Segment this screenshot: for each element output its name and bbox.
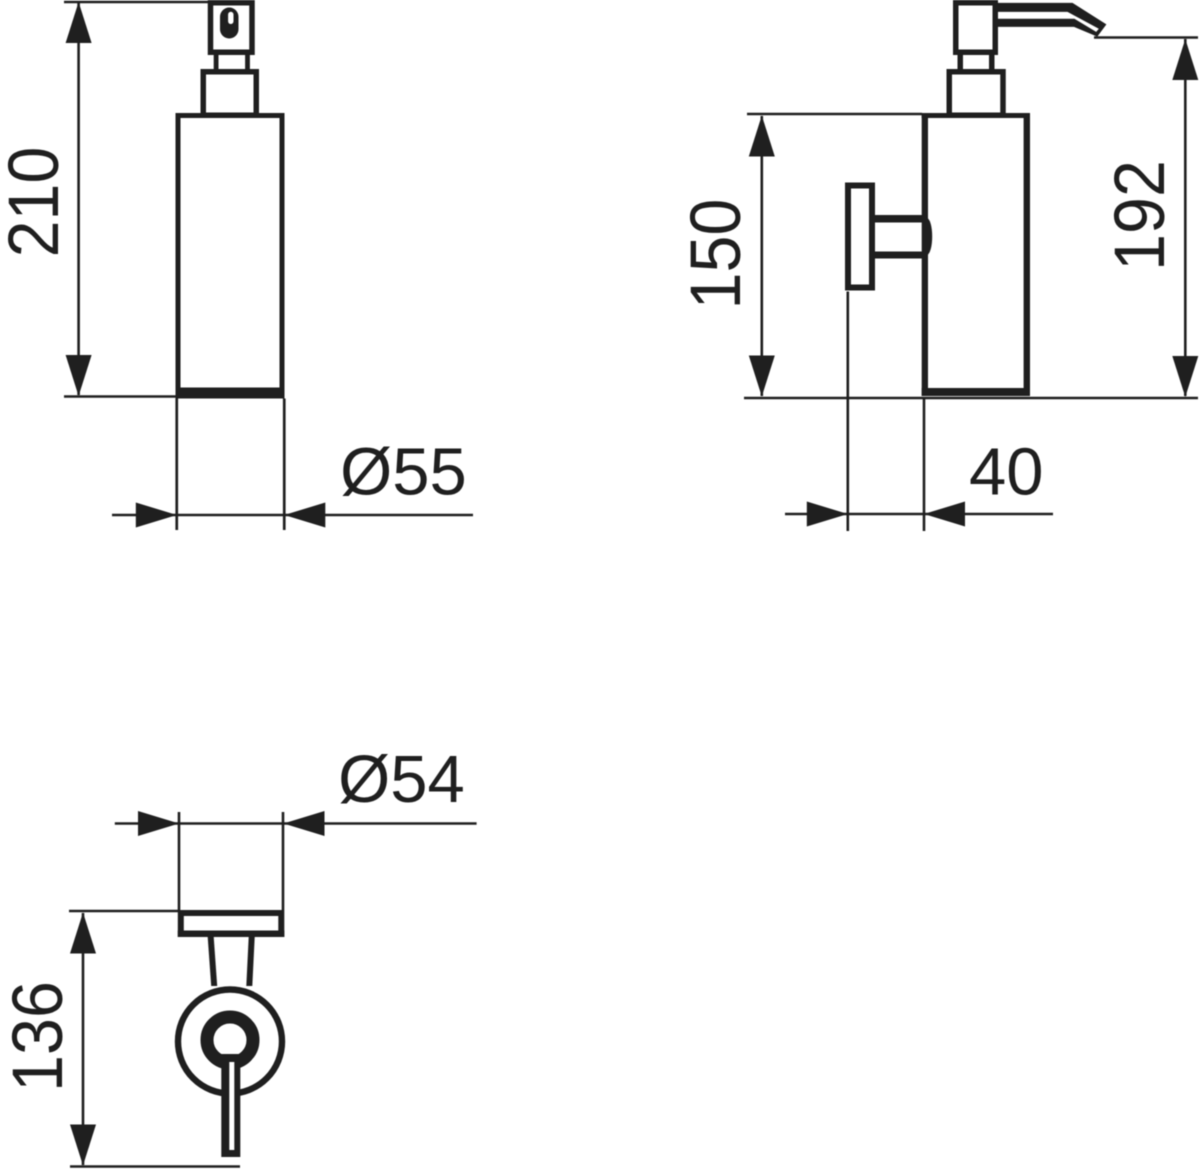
extension line d54 right [282,812,285,910]
pin end arc [925,220,930,254]
mounting pin bottom edge [873,252,926,259]
extension line top (fig1) [64,1,250,4]
pump neck right [245,50,250,72]
pump head front view [211,3,253,53]
arrowhead up (210 top) [66,2,92,43]
dimension line 192 [1184,39,1187,396]
arrowhead down (150) [749,356,775,397]
baseline bottom (fig2) [744,397,1198,400]
arrowhead up (150) [749,116,775,157]
extension line 192 top (at spout tip) [1094,36,1198,39]
dimension line diameter 54 [115,822,477,825]
arrowhead up (192) [1172,39,1198,80]
glass lower part right line [283,399,286,531]
nozzle slot [228,12,233,24]
dimension line 40 [785,513,1053,516]
holder cup rim [181,913,281,934]
body outline side view [922,113,1030,396]
svg-text:150: 150 [676,199,756,310]
extension line 136 top [69,910,178,913]
dimension line 150 [760,116,763,396]
dimension line 210 (vertical) [77,3,80,395]
arrowhead down (136) [70,1125,96,1166]
arrowhead right-pointing (d55 left) [136,503,177,528]
mounting pin top edge [873,215,926,223]
pump head side view [956,3,996,53]
body outline front view [176,113,285,399]
svg-text:136: 136 [0,981,77,1092]
svg-text:40: 40 [969,435,1044,510]
pump collar side view [949,72,1003,116]
pump neck side left [958,50,964,72]
glass lower part left line [175,399,178,531]
mounting ring donut [207,1017,253,1063]
arrowhead left-pointing (d55 right) [284,503,325,528]
spout arm tube [995,3,1106,37]
arrowhead right-pointing (d54) [138,811,179,836]
arrowhead right-pointing (40) [807,502,848,527]
stem right bar [246,937,254,986]
lever rod [221,1054,240,1157]
arrowhead down (192) [1172,356,1198,397]
svg-text:192: 192 [1100,160,1180,271]
arrowhead down (210 bottom) [66,355,92,396]
spout channel [995,12,1099,32]
wall plate [848,186,872,288]
extension line bottom (fig1, at body bottom) [64,395,176,398]
extension line d54 left [178,812,181,910]
pump neck left [214,50,219,72]
svg-text:Ø55: Ø55 [340,435,467,510]
arrowhead left-pointing (40) [924,502,965,527]
extension line 136 bottom [70,1165,240,1168]
dimension line 136 [82,913,85,1165]
extension line 40 right (below body front face) [923,399,926,531]
lever rod slot [229,1062,234,1150]
nozzle capsule [220,8,239,39]
holder cup bottom bold [178,931,284,938]
pump collar front view [203,72,256,116]
extension line top (fig2 body top) [747,113,922,116]
mounting ring outer circle [178,990,282,1094]
extension line 40 left (below wall plate) [846,292,849,532]
arrowhead left-pointing (d54) [284,811,325,836]
stem left bar [208,937,218,986]
svg-text:Ø54: Ø54 [338,742,465,817]
pump neck side right [989,50,995,72]
arrowhead up (136) [70,913,96,954]
dimension line diameter 55 [112,514,473,517]
svg-text:210: 210 [0,147,73,258]
